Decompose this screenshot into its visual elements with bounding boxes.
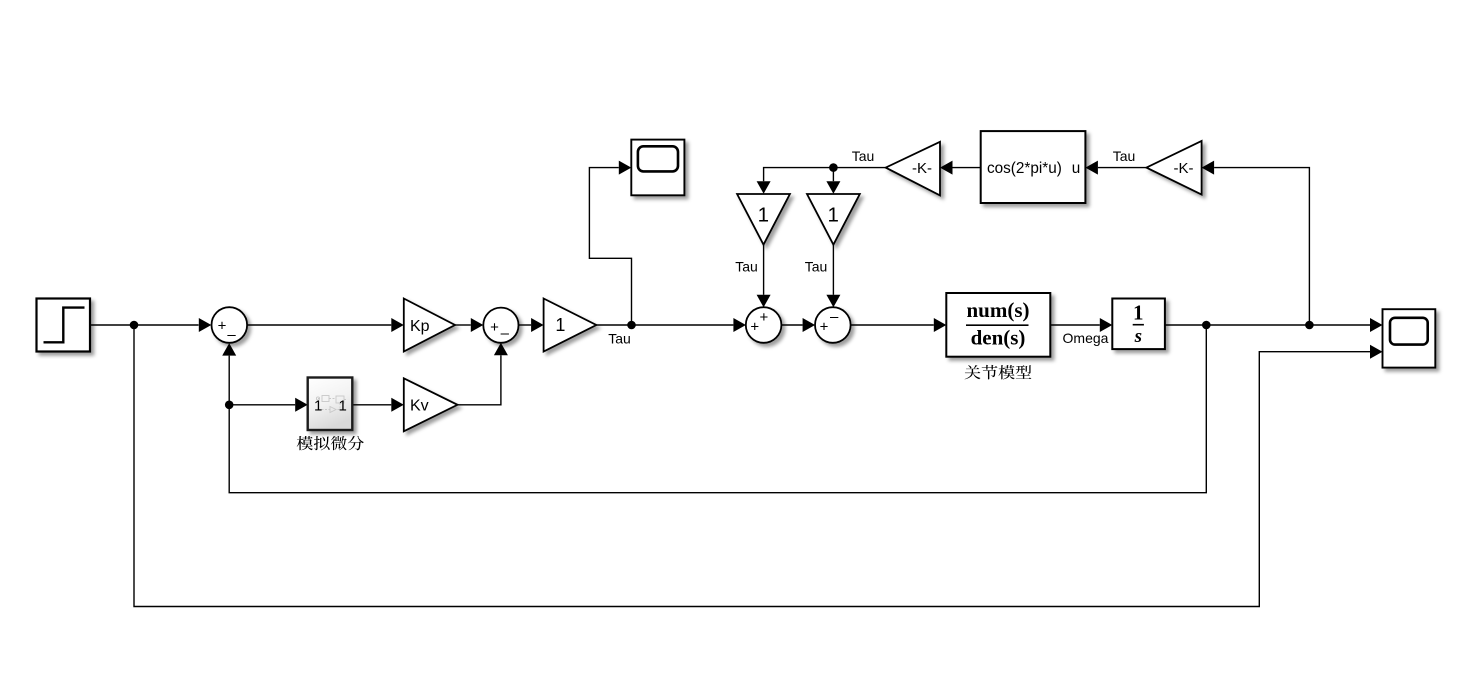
wire: sum S4 to transfer fcn: [851, 324, 934, 326]
wire: junction down into down gain 1b: [832, 168, 834, 182]
svg-text:Tau: Tau: [735, 259, 758, 275]
svg-text:Tau: Tau: [608, 331, 631, 347]
sum S1 (+ -): [212, 307, 248, 343]
transfer fcn block num(s)/den(s), joint model: [946, 293, 1050, 357]
svg-text:s: s: [1134, 326, 1142, 347]
svg-text:1: 1: [827, 204, 838, 227]
wire: step output to sum S1: [90, 324, 199, 326]
node: integrator output junction (feedback tap): [1202, 321, 1211, 330]
svg-text:1: 1: [758, 204, 769, 227]
label 模拟微分 (analog differentiation): [297, 436, 364, 450]
svg-text:u: u: [1072, 160, 1081, 177]
svg-text:+: +: [760, 309, 769, 326]
sum S4 (- +): [815, 307, 851, 343]
gain 1 (torque limiter gain): [544, 299, 597, 352]
svg-text:+: +: [218, 318, 227, 335]
gain Kv: [404, 378, 458, 431]
wire: integrator output to Scope2 input 1: [1165, 324, 1370, 326]
svg-text:Kv: Kv: [410, 398, 429, 415]
wire: top feedback from junction up to gain -K- (right): [1214, 168, 1309, 325]
label 关节模型 (joint model): [965, 365, 1032, 379]
svg-text:+: +: [820, 318, 829, 335]
svg-text:–: –: [227, 326, 236, 343]
gain Kp: [404, 299, 455, 352]
svg-text:1: 1: [1133, 301, 1144, 325]
wire: transfer fcn to integrator, Omega signal: [1050, 324, 1100, 326]
wire: inner velocity feedback down and left to sum S1: [229, 325, 1206, 493]
svg-text:-K-: -K-: [1174, 160, 1194, 177]
cos block cos(2*pi*u): [981, 131, 1086, 203]
svg-text:+: +: [750, 318, 759, 335]
step source block: [37, 299, 91, 352]
node: step output branch junction: [130, 321, 139, 330]
down gain 1b: [807, 194, 860, 245]
wire: gain Kv up to sum S2 bottom: [458, 355, 501, 405]
derivative subsystem block (模拟微分): [308, 378, 353, 431]
svg-text:–: –: [501, 325, 510, 342]
wire: gain Kp to sum S2: [455, 324, 471, 326]
wire: cos block output to gain -K- (left): [953, 167, 981, 169]
svg-text:den(s): den(s): [971, 326, 1026, 350]
wire: junction to derivative subsystem: [229, 404, 295, 406]
wire: gain 1 output to sum S3, Tau node: [596, 324, 733, 326]
wire: outer position feedback to Scope2 input 2: [134, 325, 1370, 607]
svg-text:Tau: Tau: [805, 259, 828, 275]
integrator block 1/s: [1112, 299, 1165, 350]
wire: gain -K- (right) to cos block input: [1098, 167, 1147, 169]
svg-text:-K-: -K-: [912, 160, 932, 177]
sum S3 (+ +): [746, 307, 782, 343]
svg-text:1: 1: [555, 315, 565, 335]
node: junction to top -K- feedback: [1305, 321, 1314, 330]
svg-text:Kp: Kp: [410, 318, 430, 335]
gain -K- (left, torque constant): [886, 142, 940, 196]
gain -K- (right): [1146, 141, 1201, 195]
node: junction on feedback to derivative block: [225, 401, 234, 410]
wire: down gain 1b to sum S4 top, Tau signal: [832, 245, 834, 295]
node: junction above down gain 1b: [829, 163, 838, 172]
svg-text:cos(2*pi*u): cos(2*pi*u): [987, 160, 1062, 177]
svg-text:+: +: [490, 319, 499, 336]
svg-text:1: 1: [314, 398, 322, 415]
wire: derivative subsystem to gain Kv: [352, 404, 391, 406]
svg-text:1: 1: [339, 398, 347, 415]
svg-text:–: –: [830, 308, 839, 325]
svg-text:num(s): num(s): [966, 298, 1029, 322]
wire: gain -K- (left) output to down gain 1a, corner: [764, 168, 886, 182]
sum S2 (+ -): [483, 308, 518, 343]
svg-text:Tau: Tau: [852, 148, 875, 164]
wire: branch up from Tau node to Scope1: [589, 168, 631, 325]
svg-text:Tau: Tau: [1113, 148, 1136, 164]
wire: down gain 1a to sum S3 top, Tau signal: [763, 245, 765, 295]
wire: sum S2 to gain 1: [519, 324, 532, 326]
svg-text:Omega: Omega: [1063, 330, 1109, 346]
down gain 1a: [737, 194, 790, 245]
scope Scope1 (top): [631, 140, 684, 196]
scope Scope2 (right): [1383, 309, 1436, 367]
wire: sum S1 to gain Kp: [247, 324, 391, 326]
node: Tau junction after gain 1: [627, 321, 636, 330]
wire: sum S3 to sum S4: [781, 324, 802, 326]
